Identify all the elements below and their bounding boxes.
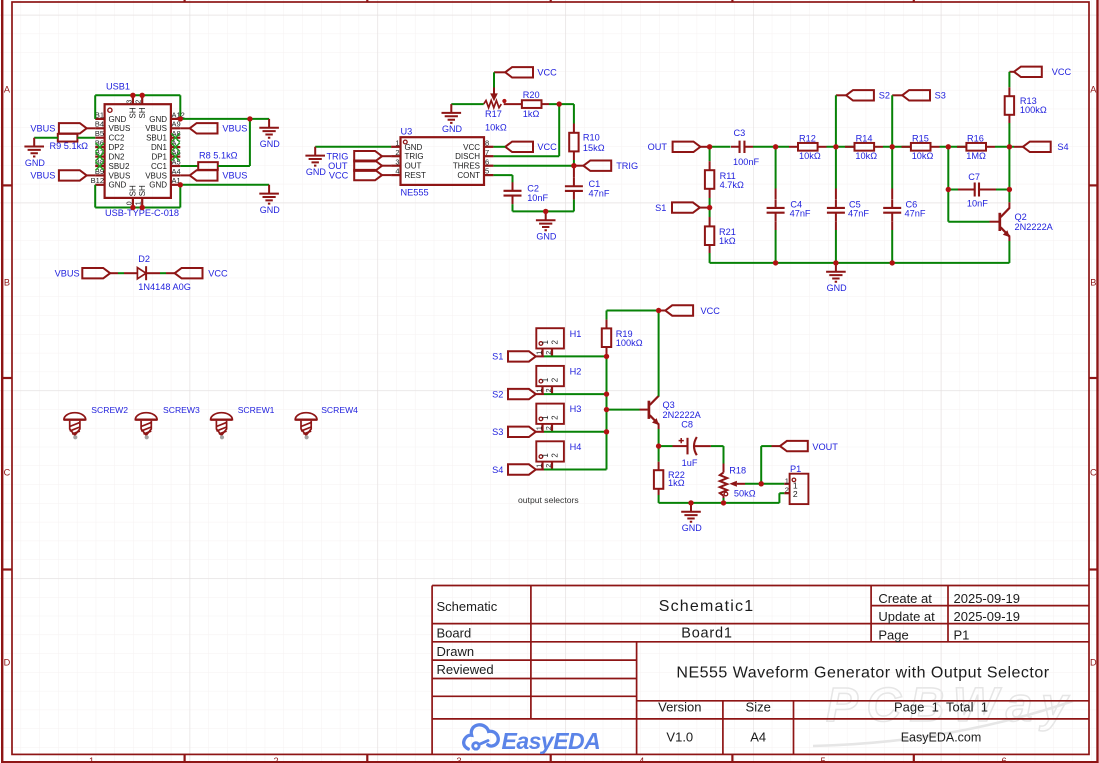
wire S1 to R21 xyxy=(709,208,711,227)
svg-text:VCC: VCC xyxy=(463,143,480,152)
wire U3 pin1 to GND xyxy=(315,146,391,148)
svg-text:R15: R15 xyxy=(912,133,929,143)
svg-text:NE555 Waveform Generator with: NE555 Waveform Generator with Output Sel… xyxy=(676,664,1049,681)
potentiometer R18 xyxy=(720,465,756,498)
svg-text:1MΩ: 1MΩ xyxy=(966,151,986,161)
svg-text:V1.0: V1.0 xyxy=(666,729,693,744)
wire C3 to R12 xyxy=(753,146,798,148)
ground at bottom bus xyxy=(826,263,847,293)
svg-text:47nF: 47nF xyxy=(905,209,926,219)
capacitor C2 xyxy=(504,182,549,204)
wire R20 to junction xyxy=(542,103,574,105)
svg-text:S4: S4 xyxy=(492,465,503,475)
svg-text:TRIG: TRIG xyxy=(405,152,424,161)
port VCC above R17 xyxy=(494,67,557,78)
resistor R19 xyxy=(602,320,643,348)
port S2 selector xyxy=(492,389,536,400)
svg-text:A4: A4 xyxy=(750,729,766,744)
resistor R15 xyxy=(911,133,934,161)
header H3 xyxy=(536,404,581,432)
wire Q3 collector xyxy=(658,311,660,397)
svg-text:Drawn: Drawn xyxy=(437,644,475,659)
svg-text:DP2: DP2 xyxy=(109,143,125,152)
port VCC at R13 xyxy=(1009,67,1071,78)
screw SCREW1 xyxy=(211,405,275,439)
header H2 xyxy=(536,366,581,394)
svg-text:C8: C8 xyxy=(681,420,693,430)
wire S3 down xyxy=(891,95,893,147)
port VCC at U3 pin8 xyxy=(493,142,557,153)
wire S2 down xyxy=(835,95,837,147)
svg-text:1kΩ: 1kΩ xyxy=(719,236,736,246)
resistor R13 xyxy=(1005,96,1047,115)
wire R17 left to GND xyxy=(451,103,483,105)
svg-text:S1: S1 xyxy=(492,352,503,362)
svg-text:47nF: 47nF xyxy=(790,209,811,219)
junction xyxy=(707,205,712,210)
junction xyxy=(178,116,183,121)
junction xyxy=(130,205,135,210)
svg-text:TRIG: TRIG xyxy=(326,152,348,162)
junction xyxy=(140,205,145,210)
wire R17 to R20 xyxy=(504,103,522,105)
junction xyxy=(721,500,726,505)
svg-text:2: 2 xyxy=(550,415,559,420)
screw SCREW4 xyxy=(295,405,358,439)
svg-text:SH: SH xyxy=(138,107,147,118)
junction xyxy=(543,209,548,214)
wire VCC rail xyxy=(607,311,659,320)
junction xyxy=(604,391,609,396)
port S3 xyxy=(892,90,946,101)
svg-text:Update at: Update at xyxy=(878,609,935,624)
port TRIG at THRES xyxy=(574,161,638,172)
svg-text:OUT: OUT xyxy=(405,162,422,171)
svg-text:2025-09-19: 2025-09-19 xyxy=(954,591,1021,606)
port S1 right xyxy=(655,202,709,213)
junction xyxy=(773,144,778,149)
svg-text:C: C xyxy=(4,468,11,478)
svg-text:1: 1 xyxy=(536,351,543,355)
svg-text:B: B xyxy=(4,278,10,288)
wire R12 to R14 xyxy=(818,146,855,148)
svg-text:5: 5 xyxy=(485,167,489,176)
svg-text:CC1: CC1 xyxy=(151,162,168,171)
wire VOUT up xyxy=(761,446,780,484)
svg-text:GND: GND xyxy=(149,181,167,190)
header H1 xyxy=(536,328,581,356)
wire R19 down xyxy=(606,347,608,356)
port OUT xyxy=(648,142,710,153)
svg-text:10kΩ: 10kΩ xyxy=(485,122,507,132)
port VCC at R19 xyxy=(659,305,721,316)
svg-text:SCREW2: SCREW2 xyxy=(91,405,128,415)
wire A1 GND xyxy=(180,184,269,186)
svg-text:C: C xyxy=(1090,468,1097,478)
svg-text:1N4148 A0G: 1N4148 A0G xyxy=(138,282,191,292)
svg-text:VBUS: VBUS xyxy=(30,123,55,133)
svg-text:SBU2: SBU2 xyxy=(109,162,130,171)
port S2 xyxy=(836,90,890,101)
svg-text:B4: B4 xyxy=(95,120,104,129)
svg-text:H2: H2 xyxy=(570,367,582,377)
svg-text:SH: SH xyxy=(129,107,138,118)
svg-text:GND: GND xyxy=(260,139,281,149)
wire H2 row xyxy=(536,393,607,395)
svg-text:GND: GND xyxy=(306,167,327,177)
svg-text:100kΩ: 100kΩ xyxy=(1020,105,1047,115)
port S1 selector xyxy=(492,351,536,362)
junction xyxy=(557,101,562,106)
svg-text:0: 0 xyxy=(126,201,133,205)
junction xyxy=(1007,187,1012,192)
svg-text:Q2: Q2 xyxy=(1015,212,1027,222)
ground at A12 xyxy=(259,119,280,149)
svg-text:2025-09-19: 2025-09-19 xyxy=(954,609,1021,624)
svg-text:A4: A4 xyxy=(172,167,181,176)
svg-text:Page 1 Total 1: Page 1 Total 1 xyxy=(894,700,988,715)
svg-text:VCC: VCC xyxy=(701,306,721,316)
wire CONT to C2 xyxy=(493,175,512,182)
svg-text:R17: R17 xyxy=(485,109,502,119)
screw SCREW2 xyxy=(64,405,128,439)
svg-text:50kΩ: 50kΩ xyxy=(734,489,756,499)
svg-text:VCC: VCC xyxy=(1052,67,1072,77)
wire R21 down xyxy=(709,245,711,263)
wire Q2 collector xyxy=(1008,190,1010,209)
svg-text:1: 1 xyxy=(136,201,143,205)
wire R10 to THRES node xyxy=(493,151,574,165)
wire VCC to R13 xyxy=(1008,72,1010,96)
junction xyxy=(604,429,609,434)
wire bottom rail xyxy=(659,502,780,504)
svg-text:SH: SH xyxy=(129,185,138,196)
svg-text:6: 6 xyxy=(1001,756,1006,763)
junction xyxy=(571,163,576,168)
wire C5 vertical xyxy=(835,147,837,199)
svg-text:OUT: OUT xyxy=(648,142,668,152)
resistor R10 xyxy=(569,133,605,154)
wire R13 down xyxy=(1008,115,1010,147)
svg-text:1: 1 xyxy=(89,756,94,763)
junction bus H2 xyxy=(0,0,1,1)
svg-text:VCC: VCC xyxy=(329,170,349,180)
port S4 selector xyxy=(492,464,536,475)
resistor R12 xyxy=(798,133,821,161)
svg-text:2: 2 xyxy=(793,489,798,499)
svg-text:Schematic: Schematic xyxy=(437,599,498,614)
ground at U3 pin1 xyxy=(305,147,326,177)
svg-text:R12: R12 xyxy=(799,133,816,143)
svg-text:1: 1 xyxy=(541,377,550,382)
svg-text:VBUS: VBUS xyxy=(109,171,131,180)
port VBUS at B9 xyxy=(30,170,95,180)
junction xyxy=(946,187,951,192)
svg-text:S1: S1 xyxy=(655,203,666,213)
svg-text:S3: S3 xyxy=(492,427,503,437)
junction xyxy=(688,500,693,505)
wire C2 C1 bottom xyxy=(513,210,574,212)
resistor R11 xyxy=(705,170,744,190)
svg-text:2: 2 xyxy=(546,464,553,468)
wire C6 vertical xyxy=(891,147,893,199)
svg-text:EasyEDA: EasyEDA xyxy=(502,728,601,754)
title block xyxy=(432,586,1089,755)
port VCC at D2 xyxy=(175,268,228,279)
svg-text:VCC: VCC xyxy=(537,142,557,152)
svg-text:D2: D2 xyxy=(138,254,150,264)
wire CC1 to R8 xyxy=(180,165,198,167)
wire VCC down to R17 wiper xyxy=(493,72,495,88)
wire R15 to R16 xyxy=(931,146,967,148)
port VCC input xyxy=(329,170,391,181)
wire R16 to S4 xyxy=(986,146,1023,148)
connector P1 xyxy=(784,464,808,504)
svg-text:3: 3 xyxy=(395,157,399,166)
svg-text:C2: C2 xyxy=(527,183,539,193)
svg-text:U3: U3 xyxy=(401,127,413,137)
wire R18 wiper to P1 xyxy=(745,483,790,485)
svg-text:2: 2 xyxy=(546,351,553,355)
svg-text:DP1: DP1 xyxy=(151,153,167,162)
wire R16 node down to C7 xyxy=(1008,147,1010,190)
svg-text:1: 1 xyxy=(536,426,543,430)
svg-text:Page: Page xyxy=(878,627,908,642)
ground at C2 C1 xyxy=(536,211,557,241)
svg-text:4: 4 xyxy=(639,756,644,763)
svg-text:R18: R18 xyxy=(729,465,746,475)
wire C7 left leg xyxy=(947,147,949,190)
svg-text:VBUS: VBUS xyxy=(222,123,247,133)
wire bus to Q3 base xyxy=(607,409,648,411)
svg-text:2: 2 xyxy=(395,148,399,157)
wire R11 to S1 node xyxy=(709,189,711,208)
wire R9 to CC2 xyxy=(77,137,95,139)
resistor R16 xyxy=(966,133,986,161)
svg-text:100nF: 100nF xyxy=(733,157,759,167)
wire H3 row xyxy=(536,431,607,433)
junction xyxy=(759,481,764,486)
svg-text:DN2: DN2 xyxy=(109,153,126,162)
text output selectors xyxy=(518,495,579,505)
svg-text:Reviewed: Reviewed xyxy=(437,662,494,677)
svg-text:10nF: 10nF xyxy=(967,199,988,209)
svg-text:VBUS: VBUS xyxy=(109,124,131,133)
svg-text:C1: C1 xyxy=(589,179,601,189)
svg-text:6: 6 xyxy=(485,157,489,166)
svg-text:1: 1 xyxy=(536,388,543,392)
port VBUS at A9 xyxy=(180,123,247,133)
svg-text:SCREW3: SCREW3 xyxy=(163,405,200,415)
resistor R9 xyxy=(50,134,89,151)
junction xyxy=(656,308,661,313)
svg-text:47nF: 47nF xyxy=(589,188,610,198)
port OUT input xyxy=(328,161,391,172)
wire C1 down xyxy=(573,200,575,212)
svg-text:7: 7 xyxy=(485,148,489,157)
wire C7 left down to Q2 base xyxy=(948,190,998,222)
svg-text:R16: R16 xyxy=(967,133,984,143)
wire R14 to R15 xyxy=(874,146,911,148)
wire Q3 emitter xyxy=(658,424,660,446)
USB connector USB1 xyxy=(91,81,185,218)
svg-text:SBU1: SBU1 xyxy=(146,134,167,143)
transistor Q2 2N2222A xyxy=(1000,208,1054,237)
port S4 xyxy=(1023,142,1069,153)
svg-text:GND: GND xyxy=(827,283,848,293)
svg-text:VBUS: VBUS xyxy=(30,171,55,181)
svg-text:S2: S2 xyxy=(879,91,890,101)
svg-text:47nF: 47nF xyxy=(848,209,869,219)
svg-text:H1: H1 xyxy=(570,329,582,339)
wire C4 vertical xyxy=(775,147,777,199)
svg-text:R20: R20 xyxy=(523,90,540,100)
wire C8 to R18 xyxy=(723,446,725,472)
svg-text:SCREW1: SCREW1 xyxy=(238,405,275,415)
junction xyxy=(178,182,183,187)
svg-text:Q3: Q3 xyxy=(663,400,675,410)
svg-text:10nF: 10nF xyxy=(527,193,548,203)
diode D2 xyxy=(137,254,191,292)
wire D2 to VCC xyxy=(146,272,175,274)
svg-text:2: 2 xyxy=(550,377,559,382)
svg-text:GND: GND xyxy=(25,158,46,168)
svg-text:VOUT: VOUT xyxy=(812,442,838,452)
svg-text:15kΩ: 15kΩ xyxy=(583,143,605,153)
port VBUS at B4 xyxy=(30,123,95,133)
svg-text:S4: S4 xyxy=(1057,142,1068,152)
svg-text:DN1: DN1 xyxy=(151,143,168,152)
svg-text:GND: GND xyxy=(109,181,127,190)
wire R18 bottom xyxy=(723,496,725,503)
ground at A1 xyxy=(259,185,280,215)
svg-text:3: 3 xyxy=(126,100,133,104)
svg-text:10kΩ: 10kΩ xyxy=(855,151,877,161)
wire VBUS to D2 xyxy=(110,272,137,274)
svg-text:R10: R10 xyxy=(583,133,600,143)
resistor R8 xyxy=(198,151,237,170)
junction dots shield xyxy=(0,0,1,1)
svg-text:Create at: Create at xyxy=(878,591,932,606)
svg-text:D: D xyxy=(1090,658,1097,668)
junction xyxy=(707,144,712,149)
svg-text:2: 2 xyxy=(273,756,278,763)
wire H1 row xyxy=(536,355,607,357)
svg-text:1: 1 xyxy=(785,476,789,485)
wire C6 down xyxy=(891,221,893,263)
svg-text:1kΩ: 1kΩ xyxy=(668,478,685,488)
op-amp timer U3 NE555 xyxy=(391,127,493,198)
junction xyxy=(833,260,838,265)
resistor R20 xyxy=(522,90,542,119)
junction xyxy=(890,144,895,149)
resistor R21 xyxy=(705,226,736,246)
svg-text:2: 2 xyxy=(546,426,553,430)
svg-text:VBUS: VBUS xyxy=(55,269,80,279)
resistor R14 xyxy=(855,133,878,161)
junction xyxy=(247,116,252,121)
wire down to R10 xyxy=(573,104,575,133)
svg-text:1: 1 xyxy=(536,464,543,468)
junction xyxy=(604,407,609,412)
wire C5 down xyxy=(835,221,837,263)
svg-text:VBUS: VBUS xyxy=(222,171,247,181)
svg-text:THRES: THRES xyxy=(453,162,480,171)
svg-text:output selectors: output selectors xyxy=(518,495,579,505)
svg-text:VCC: VCC xyxy=(537,68,557,78)
svg-text:S3: S3 xyxy=(935,91,946,101)
svg-text:VBUS: VBUS xyxy=(145,124,167,133)
svg-text:8: 8 xyxy=(485,138,489,147)
svg-text:Size: Size xyxy=(746,699,771,714)
svg-text:1: 1 xyxy=(541,340,550,345)
svg-text:GND: GND xyxy=(405,143,423,152)
svg-text:GND: GND xyxy=(109,115,127,124)
svg-text:D: D xyxy=(4,658,11,668)
svg-text:Board: Board xyxy=(437,626,472,641)
svg-text:2: 2 xyxy=(550,453,559,458)
junction xyxy=(656,443,661,448)
junction xyxy=(1007,144,1012,149)
junction bus H1 xyxy=(0,0,1,1)
wire OUT to C3 xyxy=(710,146,731,148)
svg-text:B5: B5 xyxy=(95,129,104,138)
capacitor C5 xyxy=(827,199,869,221)
svg-text:REST: REST xyxy=(405,171,426,180)
resistor R22 xyxy=(654,446,685,503)
svg-text:GND: GND xyxy=(149,115,167,124)
svg-text:P1: P1 xyxy=(954,627,970,642)
junction xyxy=(130,93,135,98)
wire A12 GND xyxy=(180,118,269,120)
wire Q2 emitter xyxy=(1008,236,1010,263)
svg-text:R14: R14 xyxy=(856,133,873,143)
svg-text:A: A xyxy=(4,85,11,95)
svg-text:USB1: USB1 xyxy=(106,81,130,91)
ground at output xyxy=(681,503,702,533)
ground at R9 xyxy=(24,138,45,168)
svg-text:R8 5.1kΩ: R8 5.1kΩ xyxy=(199,151,238,161)
wire P1 pin2 down xyxy=(779,493,784,503)
svg-text:2N2222A: 2N2222A xyxy=(663,410,702,420)
svg-text:2: 2 xyxy=(546,388,553,392)
svg-text:1uF: 1uF xyxy=(682,458,698,468)
wire C2 down xyxy=(512,204,514,211)
svg-text:3: 3 xyxy=(456,756,461,763)
svg-text:2: 2 xyxy=(550,340,559,345)
svg-text:Version: Version xyxy=(658,699,701,714)
svg-text:2: 2 xyxy=(136,100,143,104)
svg-text:TRIG: TRIG xyxy=(616,161,638,171)
svg-text:P1: P1 xyxy=(790,464,801,474)
port VOUT xyxy=(780,441,838,452)
watermark PCBWay xyxy=(813,679,1076,746)
capacitor C8 polarized xyxy=(659,420,724,469)
svg-text:1: 1 xyxy=(395,138,399,147)
junction xyxy=(833,144,838,149)
svg-text:NE555: NE555 xyxy=(401,188,429,198)
wire OUT node down xyxy=(709,147,711,170)
capacitor C6 xyxy=(883,199,926,221)
svg-text:1: 1 xyxy=(541,453,550,458)
svg-text:B: B xyxy=(1090,278,1096,288)
port S3 selector xyxy=(492,427,536,438)
port VBUS at D2 xyxy=(55,268,111,279)
capacitor C3 xyxy=(731,128,759,167)
capacitor C4 xyxy=(767,199,811,221)
junction xyxy=(890,260,895,265)
svg-text:10kΩ: 10kΩ xyxy=(912,151,934,161)
